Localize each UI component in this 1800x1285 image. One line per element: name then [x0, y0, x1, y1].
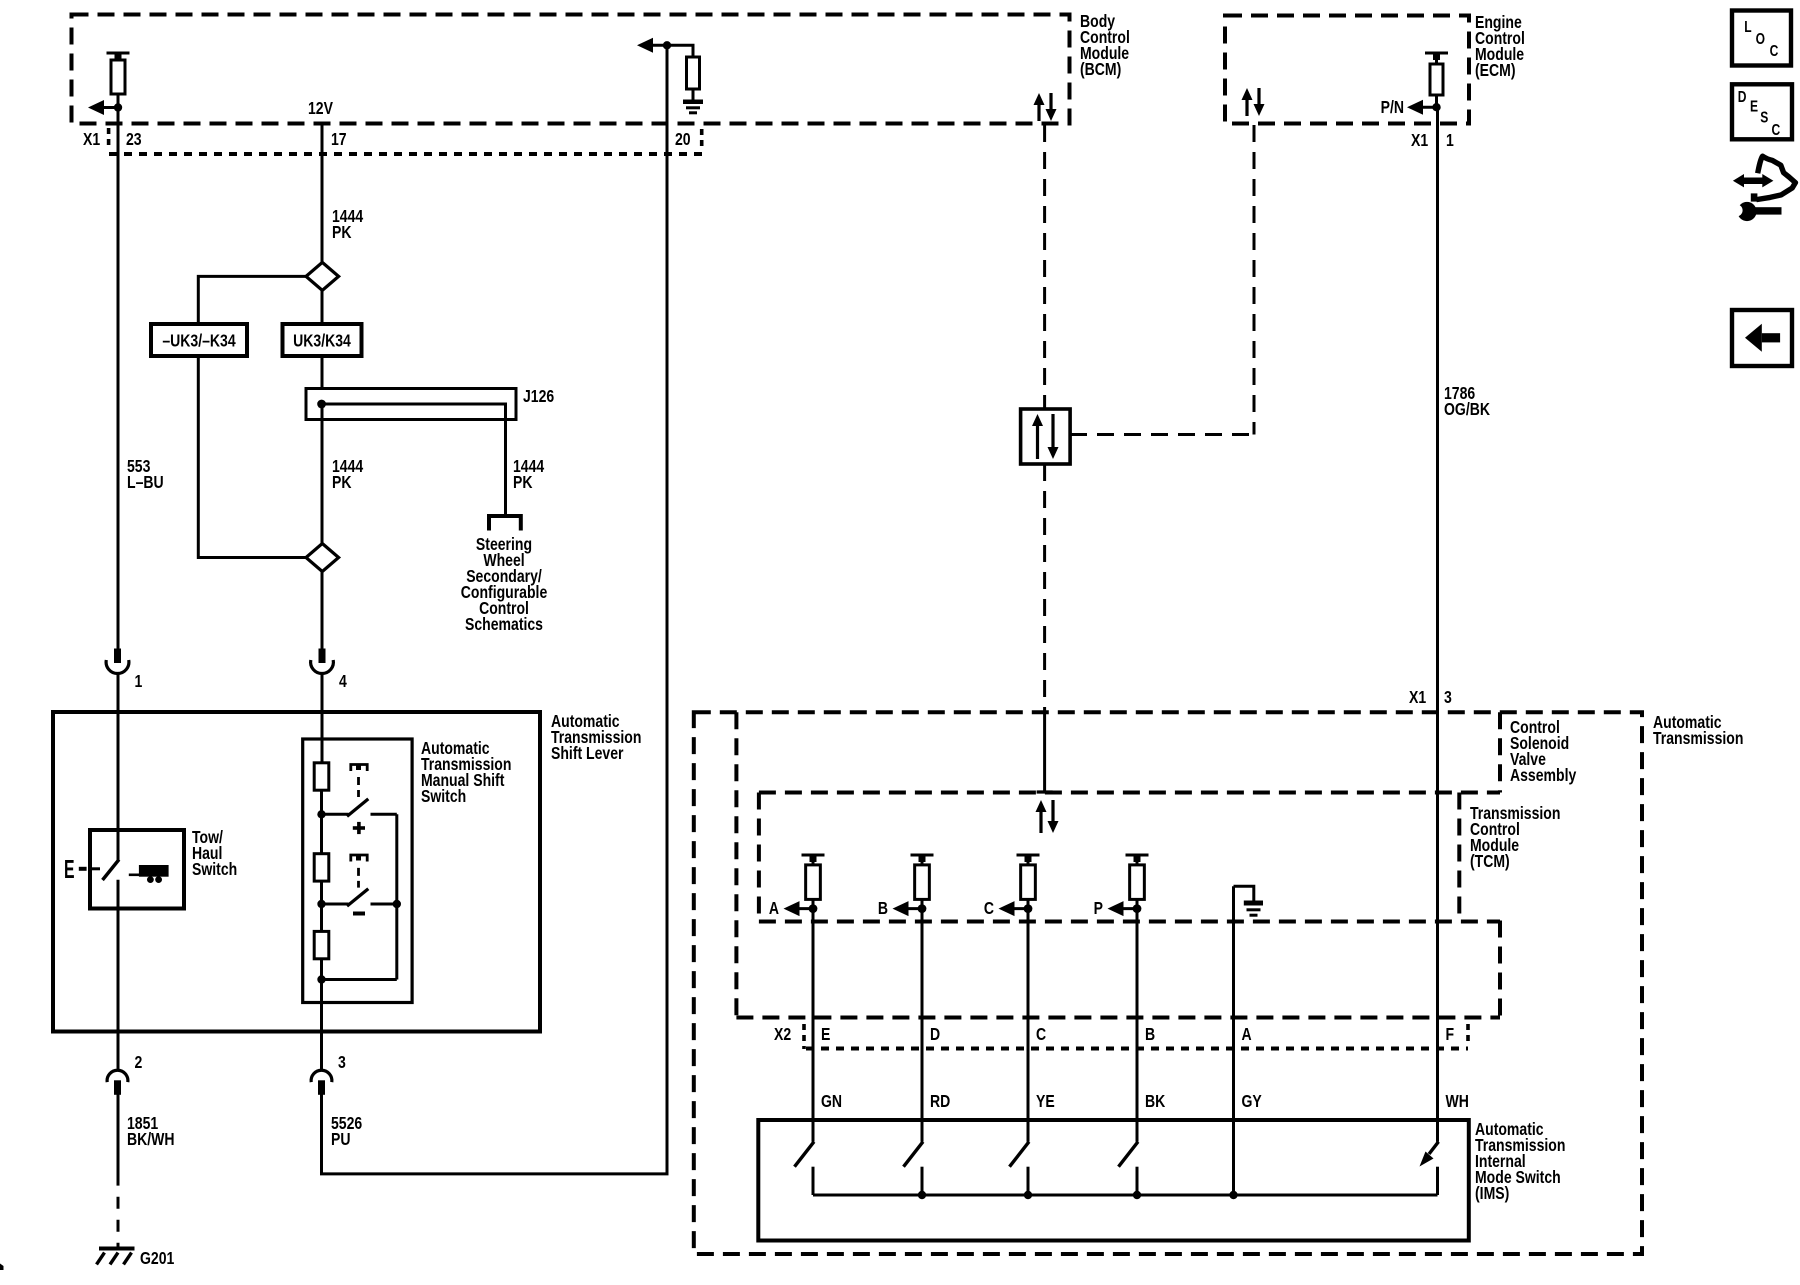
wire 1444 label right [513, 456, 544, 492]
ECM label [1475, 12, 1525, 80]
wire pin4 into shift lever [321, 675, 324, 764]
solenoid A coil [802, 855, 825, 909]
svg-text:C: C [984, 898, 994, 918]
splice diamond S1 [306, 262, 339, 290]
switch + actuator [322, 765, 397, 817]
J126 label [523, 386, 554, 406]
svg-text:1: 1 [135, 671, 143, 691]
IMS box [758, 1120, 1469, 1241]
DESC icon [1732, 84, 1792, 139]
E terminal label [64, 856, 75, 884]
splice pack J126 [306, 389, 516, 515]
Automatic Transmission Shift Lever box [53, 712, 540, 1032]
pin 3 label [338, 1052, 346, 1072]
svg-text:GN: GN [821, 1091, 842, 1111]
svg-text:Schematics: Schematics [465, 614, 543, 634]
IMS common bus [813, 1191, 1438, 1199]
BCM label [1080, 11, 1130, 79]
option box UK3/K34 [283, 324, 362, 356]
BCM internal ground [683, 102, 703, 113]
svg-text:X2: X2 [774, 1024, 791, 1044]
shift lever label [551, 711, 641, 763]
page edge mark [0, 1264, 4, 1271]
node MSW2 [317, 900, 325, 908]
wire 1786 OG/BK [1436, 107, 1439, 1142]
X2 pin D label [930, 1024, 940, 1044]
data link connector box [1021, 409, 1071, 464]
BCM pin 23 internal resistor [107, 53, 130, 108]
svg-text:3: 3 [1444, 687, 1452, 707]
MSW right rail [322, 814, 397, 979]
svg-text:J126: J126 [523, 386, 554, 406]
pin 3 label (transmission) [1444, 687, 1452, 707]
BCM pin 20 internal resistor [667, 45, 700, 100]
X2 pin E label [821, 1024, 831, 1044]
wire pin1 into shift lever [117, 675, 120, 861]
solenoid A arrow [784, 901, 818, 916]
solenoid C arrow [999, 901, 1033, 916]
wire color BK label [1145, 1091, 1166, 1111]
Tow/Haul switch label [192, 827, 237, 879]
X2 pin F label [1446, 1024, 1455, 1044]
Tow/Haul switch blade [103, 860, 120, 881]
connector pin 2 [107, 1070, 128, 1095]
pin 17 label [331, 129, 347, 149]
svg-text:C: C [1770, 42, 1779, 60]
svg-text:12V: 12V [308, 98, 333, 118]
X2 connector row [804, 1024, 1468, 1049]
TCM label [1470, 803, 1560, 871]
solenoid P coil [1126, 855, 1149, 909]
svg-text:X1: X1 [83, 129, 100, 149]
solenoid A letter [769, 898, 779, 918]
pin 1 label [1446, 130, 1454, 150]
svg-text:3: 3 [338, 1052, 346, 1072]
wire 1786 label [1444, 383, 1490, 419]
12V label [308, 98, 333, 118]
resistor R1 [314, 763, 329, 815]
Automatic Transmission label [1653, 712, 1743, 748]
Control Solenoid Valve Assembly box [736, 712, 1500, 1017]
solenoid B letter [878, 898, 888, 918]
svg-text:WH: WH [1446, 1091, 1469, 1111]
svg-text:Transmission: Transmission [1653, 728, 1743, 748]
X2 pin B label [1145, 1024, 1155, 1044]
MSW output wire [320, 980, 323, 1070]
TCM box [759, 793, 1500, 922]
svg-text:GY: GY [1242, 1091, 1262, 1111]
P/N label [1381, 97, 1404, 117]
svg-text:B: B [1145, 1024, 1155, 1044]
svg-text:P: P [1094, 898, 1104, 918]
svg-text:23: 23 [126, 129, 142, 149]
X2 pin C label [1036, 1024, 1046, 1044]
pin 20 label [675, 129, 691, 149]
IMS switch E [795, 1142, 815, 1195]
Tow/Haul switch box [90, 830, 184, 909]
wire color RD label [930, 1091, 950, 1111]
BCM serial data arrows [1034, 93, 1057, 121]
pin 4 label [339, 671, 347, 691]
connector C202 pin 1 [106, 649, 129, 674]
ECM module box [1225, 16, 1469, 124]
off-page connector to steering wheel schematics [489, 516, 521, 531]
TCM internal ground [1234, 886, 1264, 915]
dashed data wire ECM down [1253, 125, 1256, 435]
wire solenoid P down [1136, 909, 1139, 1142]
TCM serial data arrows [1036, 800, 1059, 833]
wire solenoid B down [921, 909, 924, 1142]
svg-text:(ECM): (ECM) [1475, 60, 1516, 80]
BCM pin 20 arrow [637, 38, 671, 53]
ground G201 [97, 1249, 135, 1265]
plus label [353, 822, 365, 834]
svg-text:BK/WH: BK/WH [127, 1129, 175, 1149]
minus label [353, 912, 365, 916]
wire solenoid A down [812, 909, 815, 1142]
solenoid C letter [984, 898, 994, 918]
wire color GY label [1242, 1091, 1262, 1111]
svg-text:Shift Lever: Shift Lever [551, 743, 624, 763]
svg-text:PK: PK [332, 472, 352, 492]
node MSW3 [317, 975, 325, 983]
label X1 (BCM) [83, 129, 100, 149]
svg-text:G201: G201 [140, 1248, 174, 1268]
wire 1851 label [127, 1113, 175, 1149]
label X1 (transmission) [1409, 687, 1426, 707]
svg-text:BK: BK [1145, 1091, 1166, 1111]
IMS label [1475, 1119, 1565, 1203]
Automatic Transmission box [694, 712, 1642, 1254]
svg-text:2: 2 [135, 1052, 143, 1072]
schematic navigation icon [1731, 156, 1796, 221]
wire 1444 PK upper [321, 124, 324, 263]
node MSW1 [317, 810, 325, 818]
svg-text:4: 4 [339, 671, 347, 691]
svg-text:A: A [1242, 1024, 1252, 1044]
pin 2 label [135, 1052, 143, 1072]
solenoid P letter [1094, 898, 1104, 918]
svg-text:20: 20 [675, 129, 691, 149]
IMS switch B [1119, 1142, 1139, 1195]
svg-text:E: E [821, 1024, 831, 1044]
svg-text:D: D [1738, 88, 1747, 106]
wire -UK3 box to diamond S2 [198, 356, 306, 558]
svg-text:A: A [769, 898, 779, 918]
BCM module box [72, 15, 1070, 124]
dashed data wire below box [1043, 464, 1046, 712]
solenoid P arrow [1108, 901, 1142, 916]
Manual Shift switch box [303, 739, 412, 1003]
wire diamond to UK3 box [321, 290, 324, 324]
LOC icon [1732, 11, 1791, 66]
svg-text:RD: RD [930, 1091, 950, 1111]
wire 1444 PK lower [321, 572, 324, 652]
label X2 [774, 1024, 791, 1044]
svg-text:PU: PU [331, 1129, 350, 1149]
svg-text:C: C [1036, 1024, 1046, 1044]
ECM internal resistor [1425, 53, 1448, 107]
solenoid B coil [911, 855, 934, 909]
wire 5526 label [331, 1113, 362, 1149]
Manual Shift switch label [421, 738, 511, 806]
svg-text:OG/BK: OG/BK [1444, 399, 1490, 419]
svg-text:(TCM): (TCM) [1470, 851, 1510, 871]
pin 1 label [135, 671, 143, 691]
svg-text:1: 1 [1446, 130, 1454, 150]
wire color YE label [1036, 1091, 1055, 1111]
svg-text:P/N: P/N [1381, 97, 1404, 117]
pin 23 label [126, 129, 142, 149]
svg-text:Assembly: Assembly [1510, 765, 1576, 785]
svg-text:C: C [1772, 120, 1781, 138]
svg-text:–UK3/–K34: –UK3/–K34 [162, 331, 235, 351]
svg-text:X1: X1 [1409, 687, 1426, 707]
solenoid C coil [1017, 855, 1040, 909]
G201 label [140, 1248, 174, 1268]
P/N arrow [1407, 100, 1441, 115]
wire 553 L-BU (BCM pin 23 to connector 1) [117, 108, 120, 652]
svg-text:UK3/K34: UK3/K34 [293, 331, 351, 351]
svg-text:L: L [1744, 17, 1752, 35]
svg-text:L–BU: L–BU [127, 472, 164, 492]
IMS switch D [904, 1142, 924, 1195]
ECM serial data arrows [1242, 88, 1265, 116]
svg-text:PK: PK [332, 222, 352, 242]
X2 pin A label [1242, 1024, 1252, 1044]
back arrow icon [1732, 310, 1792, 366]
wire UK3 box to J126 [321, 356, 324, 390]
label X1 (ECM) [1411, 130, 1428, 150]
svg-text:(BCM): (BCM) [1080, 59, 1121, 79]
svg-text:O: O [1756, 30, 1766, 48]
resistor R3 [314, 904, 329, 980]
E terminal dash [79, 867, 87, 871]
svg-text:Switch: Switch [192, 859, 237, 879]
wire 553 label [127, 456, 164, 492]
svg-text:E: E [1750, 97, 1758, 115]
wire 1851 BK/WH [117, 1095, 120, 1249]
wire color WH label [1446, 1091, 1469, 1111]
steering wheel schematics label [461, 534, 548, 634]
solenoid B arrow [893, 901, 927, 916]
connector C202 pin 4 [311, 649, 334, 674]
Tow/Haul switch contact [90, 867, 100, 870]
wire 1444 label mid [332, 456, 363, 492]
CSVA label [1510, 717, 1576, 785]
wire 1444 PK mid [321, 404, 324, 545]
svg-text:D: D [930, 1024, 940, 1044]
switch - actuator [322, 855, 401, 908]
wire color GN label [821, 1091, 842, 1111]
svg-text:S: S [1760, 108, 1768, 126]
svg-text:PK: PK [513, 472, 533, 492]
resistor R2 [314, 814, 329, 904]
IMS switch F (wiper) [1420, 1142, 1439, 1195]
svg-text:B: B [878, 898, 888, 918]
X1 connector row (BCM) [109, 128, 706, 154]
svg-text:(IMS): (IMS) [1475, 1183, 1509, 1203]
IMS switch C [1010, 1142, 1030, 1195]
wire ground to IMS [1232, 886, 1235, 1195]
svg-text:E: E [64, 856, 75, 884]
svg-text:F: F [1446, 1024, 1455, 1044]
svg-text:Switch: Switch [421, 786, 466, 806]
wire 5526/pin20 riser [322, 45, 668, 1174]
svg-text:X1: X1 [1411, 130, 1428, 150]
data wire into TCM [1037, 712, 1053, 792]
connector pin 3 [311, 1070, 332, 1095]
svg-text:17: 17 [331, 129, 347, 149]
BCM pin 23 output arrow [88, 100, 122, 115]
dashed data wire BCM down [1043, 125, 1046, 409]
Tow/Haul output wire [117, 880, 120, 1069]
wire 1444 label upper [332, 206, 363, 242]
svg-text:YE: YE [1036, 1091, 1055, 1111]
dashed data wire horizontal [1070, 433, 1254, 436]
wire to -UK3/-K34 [198, 276, 306, 324]
splice diamond S2 [306, 544, 339, 572]
option box -UK3/-K34 [151, 324, 247, 356]
wire solenoid C down [1027, 909, 1030, 1142]
trailer icon [129, 865, 169, 883]
